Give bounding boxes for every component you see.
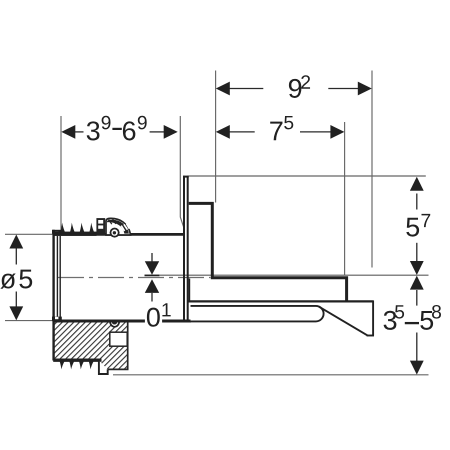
centerline dash-dot bbox=[58, 277, 211, 279]
bottom edge bbox=[367, 335, 374, 337]
white slashes in band bbox=[121, 226, 124, 231]
block bottom bar bbox=[53, 359, 101, 362]
ring bbox=[110, 228, 120, 238]
top teeth bbox=[60, 223, 66, 234]
fin strip base bar bbox=[54, 232, 97, 236]
cap top flange bbox=[52, 230, 62, 234]
dark tab in notch bbox=[112, 321, 117, 325]
socket line 2 bbox=[59, 236, 61, 319]
block bottom right edge bbox=[108, 368, 129, 370]
pipe bottom wall bbox=[54, 320, 191, 323]
white rect hole bbox=[110, 332, 127, 346]
ext line right of 75 bbox=[344, 122, 346, 275]
white semicircle notch bbox=[110, 321, 119, 326]
plate top cap bbox=[183, 176, 189, 178]
right edge bbox=[372, 301, 374, 336]
ext line right of 92 bbox=[371, 71, 373, 268]
ext line bottom of diameter 5 bbox=[5, 320, 56, 322]
socket line 1 bbox=[56, 236, 58, 319]
axis thin line bbox=[159, 274, 429, 276]
plate left line bbox=[183, 176, 185, 322]
bottom flange bbox=[187, 300, 374, 302]
top line / ext line of 57 bbox=[189, 175, 426, 177]
flange riser bbox=[188, 279, 190, 302]
pipe top wall bbox=[54, 233, 184, 236]
dark hatch marks in white band bbox=[109, 220, 112, 225]
clamp block bbox=[96, 218, 105, 235]
step + vertical + shelf bbox=[189, 203, 347, 301]
bottom teeth bbox=[60, 362, 65, 370]
ext line right of 3-9-6-9 bbox=[180, 116, 184, 230]
ext line top of diameter 5 bbox=[5, 233, 58, 235]
foot outline bbox=[99, 361, 108, 375]
ext line left of 3-9-6-9 bbox=[60, 116, 62, 234]
rolled gasket body bbox=[106, 218, 131, 235]
block right edge bbox=[127, 322, 129, 369]
dark band along top edge bbox=[107, 220, 129, 234]
cap bottom flange bbox=[52, 317, 62, 322]
ext line left of 92/75 bbox=[215, 71, 217, 203]
pipe left cap bbox=[52, 230, 54, 361]
diagonal bbox=[319, 307, 368, 336]
plate right line bbox=[187, 176, 189, 322]
ext line bottom right (y375) bbox=[113, 374, 429, 376]
